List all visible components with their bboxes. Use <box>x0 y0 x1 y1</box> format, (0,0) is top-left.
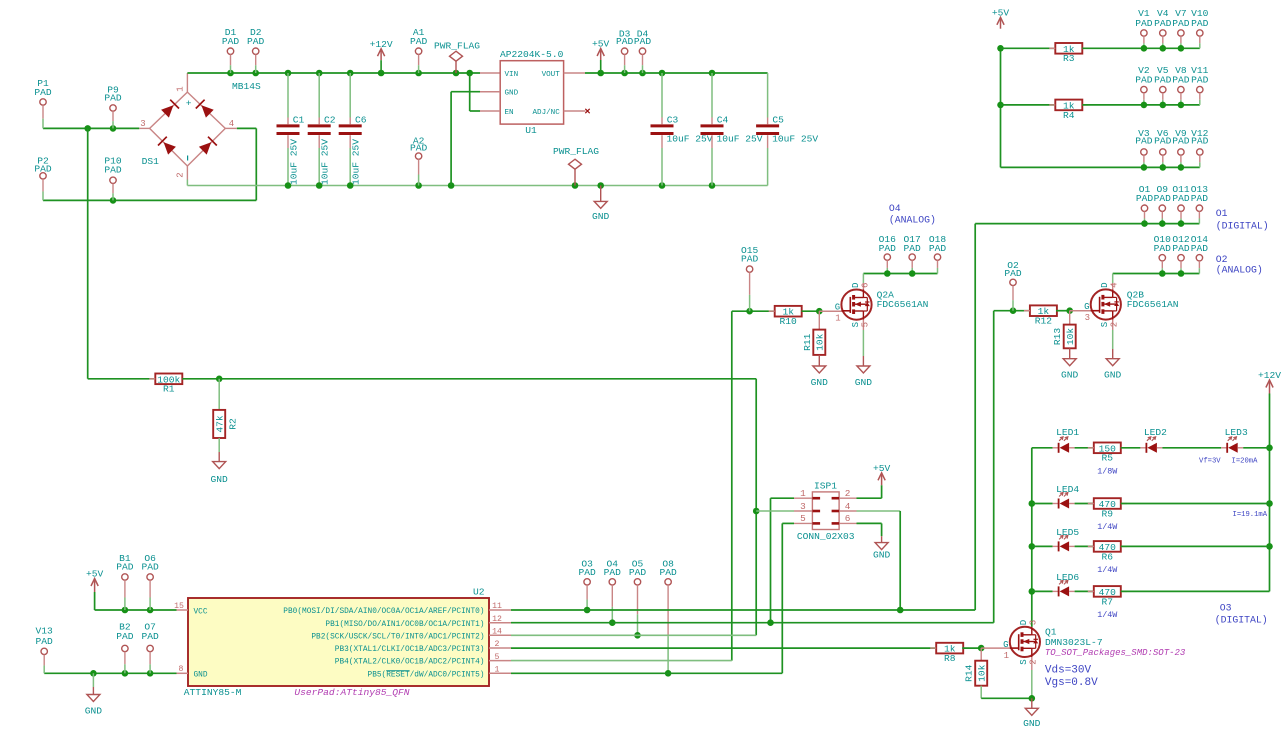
svg-text:PAD: PAD <box>141 631 159 642</box>
svg-text:+: + <box>186 98 192 109</box>
wire ISP pin1 to PB1 <box>771 498 795 623</box>
resistor R8 <box>930 643 969 664</box>
wire VIN pin stub <box>480 72 500 74</box>
wire LED row4 c <box>1121 590 1270 592</box>
wire +12V rail <box>187 72 480 74</box>
node O1 (DIGITAL) <box>1216 208 1269 231</box>
capacitor C3 <box>651 73 713 186</box>
svg-text:PAD: PAD <box>1191 18 1209 29</box>
wire gate stub Q2B <box>1070 310 1091 312</box>
svg-text:10uF 25V: 10uF 25V <box>320 139 331 185</box>
junction O4 on PB1 <box>609 619 616 626</box>
junction +5V row2 <box>997 102 1004 109</box>
svg-text:D: D <box>1019 620 1029 625</box>
junction C2 top on +12V rail <box>316 70 323 77</box>
junction PWR_FLAG on +12V rail <box>453 70 460 77</box>
value UserPad footprint <box>294 687 409 698</box>
svg-text:PAD: PAD <box>578 567 596 578</box>
wire PB5 net <box>511 672 782 674</box>
svg-text:MB14S: MB14S <box>232 81 261 92</box>
svg-text:PAD: PAD <box>1135 136 1153 147</box>
connector V4 <box>1154 8 1172 48</box>
connector A2 <box>410 135 428 185</box>
svg-text:FDC6561AN: FDC6561AN <box>877 299 929 310</box>
ground symbol main rail <box>592 186 610 223</box>
wire P1/P9 net to bridge pin3 <box>43 127 139 129</box>
wire PB3 to R8 <box>936 647 938 649</box>
resistor R2 <box>213 379 239 438</box>
svg-text:PAD: PAD <box>141 561 159 572</box>
connector O17 <box>904 234 922 274</box>
svg-text:1: 1 <box>800 488 806 499</box>
svg-text:PAD: PAD <box>410 142 428 153</box>
wire PB3 net <box>511 647 937 649</box>
connector O18 <box>929 234 947 274</box>
svg-text:2: 2 <box>176 172 186 177</box>
svg-text:R13: R13 <box>1052 328 1063 346</box>
diode LED2 <box>1140 427 1167 453</box>
wire ISP pin3 <box>756 510 794 512</box>
connector O1 <box>1136 184 1154 224</box>
resistor R7 <box>1088 586 1127 620</box>
svg-text:DMN3023L-7: DMN3023L-7 <box>1045 637 1103 648</box>
wire GND rail <box>187 185 767 187</box>
wire LED row1 e <box>1243 447 1269 449</box>
junction A1 on +12V rail <box>415 70 422 77</box>
svg-text:1: 1 <box>1004 651 1009 661</box>
junction Q1 source gnd <box>1029 695 1036 702</box>
wire LED row4 b <box>1075 590 1094 592</box>
junction P1 riser <box>84 125 91 132</box>
svg-text:6: 6 <box>845 513 851 524</box>
capacitor C5 <box>756 73 818 186</box>
connector V2 <box>1135 65 1153 105</box>
connector V1 <box>1135 8 1153 48</box>
svg-text:LED5: LED5 <box>1056 527 1079 538</box>
junction C4 top on +5V rail <box>709 70 716 77</box>
transistor Q1 DMN3023L-7 <box>1003 620 1102 698</box>
svg-text:+5V: +5V <box>86 569 104 580</box>
junction P10 <box>110 197 117 204</box>
wire Q2A gate row <box>732 310 775 312</box>
connector D3 <box>616 28 634 73</box>
ground R11 <box>811 355 829 388</box>
connector O13 <box>1191 184 1209 224</box>
connector B1 <box>116 553 134 610</box>
connector D2 <box>247 27 265 73</box>
connector O9 <box>1154 184 1172 224</box>
junction P9 <box>110 125 117 132</box>
ground Q2B source <box>1104 359 1122 381</box>
svg-text:PWR_FLAG: PWR_FLAG <box>553 146 599 157</box>
wire ISP pin4 to PB0 <box>857 511 901 610</box>
svg-text:5: 5 <box>800 513 806 524</box>
power +5V top-right <box>992 8 1010 29</box>
svg-text:PAD: PAD <box>1172 243 1190 254</box>
svg-text:O3: O3 <box>1220 602 1232 613</box>
svg-text:ATTINY85-M: ATTINY85-M <box>184 687 242 698</box>
connector V10 <box>1191 8 1209 48</box>
connector O16 <box>879 234 897 274</box>
svg-text:PAD: PAD <box>1004 268 1022 279</box>
svg-text:PAD: PAD <box>104 92 122 103</box>
svg-text:1: 1 <box>835 314 840 324</box>
svg-text:PB5(RESET/dW/ADC0/PCINT5): PB5(RESET/dW/ADC0/PCINT5) <box>368 671 485 679</box>
junction V5 <box>1160 102 1167 109</box>
power +5V at U2 <box>86 569 104 611</box>
svg-text:PAD: PAD <box>629 567 647 578</box>
svg-text:PB1(MISO/DO/AIN1/OC0B/OC1A/PCI: PB1(MISO/DO/AIN1/OC0B/OC1A/PCINT1) <box>325 621 484 629</box>
svg-text:6: 6 <box>860 283 870 288</box>
wire PB1 net <box>511 622 994 624</box>
svg-text:PAD: PAD <box>1135 75 1153 86</box>
svg-text:R9: R9 <box>1102 508 1114 519</box>
ground Q1 <box>1023 698 1041 729</box>
diode LED1 <box>1053 427 1080 453</box>
svg-text:C6: C6 <box>355 115 367 126</box>
connector P9 <box>104 84 122 128</box>
wire R1 row left <box>88 378 156 380</box>
wire O1 digital row <box>975 223 1199 225</box>
connector P10 <box>104 156 122 201</box>
note Vds <box>1045 664 1092 676</box>
svg-text:4: 4 <box>845 501 851 512</box>
junction LED row2 right <box>1266 500 1273 507</box>
svg-text:PAD: PAD <box>904 243 922 254</box>
connector V8 <box>1172 65 1190 105</box>
resistor R6 <box>1088 541 1127 575</box>
svg-text:G: G <box>835 303 840 313</box>
op-amp regulator U1 AP2204K-5.0 <box>480 49 590 136</box>
connector V13 <box>36 626 54 674</box>
svg-text:+5V: +5V <box>873 463 891 474</box>
junction +5V row1 <box>997 45 1004 52</box>
junction C4 bot on GND rail <box>709 182 716 189</box>
resistor R3 <box>1049 43 1088 64</box>
wire LED row3 c <box>1121 545 1270 547</box>
junction C6 top on +12V rail <box>347 70 354 77</box>
power +5V at ISP <box>873 463 891 485</box>
svg-text:+5V: +5V <box>592 38 610 49</box>
junction V9 <box>1178 164 1185 171</box>
wire LED left rail / Q1 drain <box>1031 448 1033 627</box>
svg-text:R11: R11 <box>802 333 813 351</box>
svg-text:PAD: PAD <box>1154 136 1172 147</box>
svg-text:(DIGITAL): (DIGITAL) <box>1215 614 1268 625</box>
svg-text:1/4W: 1/4W <box>1097 610 1118 620</box>
resistor R13 <box>1052 311 1076 349</box>
svg-text:S: S <box>851 322 861 327</box>
wire VCC row <box>95 609 177 611</box>
connector ISP1 CONN_02X03 <box>794 481 857 542</box>
wire +12V LED rail <box>1269 394 1271 592</box>
svg-text:R5: R5 <box>1102 453 1114 464</box>
wire LED row3 b <box>1075 545 1094 547</box>
wire Q1 gate stub <box>981 647 1010 649</box>
svg-text:10k: 10k <box>1065 328 1076 346</box>
svg-text:(DIGITAL): (DIGITAL) <box>1216 220 1269 231</box>
svg-text:FDC6561AN: FDC6561AN <box>1127 299 1179 310</box>
svg-text:4: 4 <box>1110 282 1120 287</box>
transistor Q2A FDC6561AN <box>835 274 929 367</box>
capacitor C6 <box>339 73 367 186</box>
wire riser R1 net to ISP pin3/PB2 <box>755 379 757 636</box>
junction C1 bot on GND rail <box>285 182 292 189</box>
svg-text:GND: GND <box>811 377 829 388</box>
junction PWR_FLAG2 on GND rail <box>572 182 579 189</box>
wire V row2 right <box>1082 104 1200 106</box>
junction O17 <box>909 270 916 277</box>
svg-text:PAD: PAD <box>116 561 134 572</box>
connector O11 <box>1172 184 1190 224</box>
svg-text:GND: GND <box>85 706 103 717</box>
junction V4 <box>1160 45 1167 52</box>
svg-text:2: 2 <box>1029 659 1039 664</box>
junction O15 <box>746 308 753 315</box>
connector O2 <box>1004 260 1022 311</box>
junction O1 <box>1141 220 1148 227</box>
junction V7 <box>1178 45 1185 52</box>
svg-text:10uF 25V: 10uF 25V <box>772 133 818 144</box>
wire riser Q2A gate to PB4 <box>731 311 733 660</box>
junction B2 <box>122 670 129 677</box>
connector D1 <box>222 27 240 73</box>
resistor R11 <box>802 311 826 355</box>
wire gate stub Q2A <box>819 310 841 312</box>
power +12V at LEDs <box>1258 370 1281 393</box>
svg-text:10uF 25V: 10uF 25V <box>717 133 763 144</box>
svg-text:LED2: LED2 <box>1144 427 1167 438</box>
ground R2 <box>211 438 229 485</box>
connector O5 <box>629 559 647 636</box>
svg-text:12: 12 <box>492 615 502 624</box>
svg-text:PAD: PAD <box>1136 193 1154 204</box>
junction Q2A gate <box>816 308 823 315</box>
svg-text:3: 3 <box>1029 620 1039 625</box>
svg-text:VCC: VCC <box>194 608 208 616</box>
svg-text:C1: C1 <box>293 115 305 126</box>
svg-text:C4: C4 <box>717 115 729 126</box>
junction O5 on PB2 <box>634 632 641 639</box>
svg-text:S: S <box>1100 322 1110 327</box>
wire R8 to junction <box>962 647 981 649</box>
junction V8 <box>1178 102 1185 109</box>
svg-text:R6: R6 <box>1102 551 1114 562</box>
junction LED row3 left <box>1029 543 1036 550</box>
svg-text:GND: GND <box>873 550 891 561</box>
connector O8 <box>659 559 677 674</box>
svg-text:3: 3 <box>1085 313 1090 323</box>
svg-text:PWR_FLAG: PWR_FLAG <box>434 41 480 52</box>
junction O12 <box>1178 270 1185 277</box>
svg-text:C3: C3 <box>667 115 679 126</box>
connector V12 <box>1191 128 1209 167</box>
junction A2 on GND rail <box>415 182 422 189</box>
svg-text:+12V: +12V <box>1258 370 1281 381</box>
junction +12V on +12V rail <box>378 70 385 77</box>
diode LED4 <box>1053 484 1080 509</box>
svg-text:S: S <box>1019 659 1029 664</box>
junction GND sym on GND rail <box>597 182 604 189</box>
svg-text:R7: R7 <box>1102 596 1114 607</box>
op-amp U2 ATTINY85-M <box>174 587 511 698</box>
connector O15 <box>741 245 759 311</box>
connector O10 <box>1154 234 1172 274</box>
svg-text:ADJ/NC: ADJ/NC <box>532 109 560 117</box>
svg-text:GND: GND <box>505 90 519 98</box>
svg-text:3: 3 <box>140 119 145 129</box>
capacitor C1 <box>277 73 305 186</box>
junction ISP pin3 on R1 riser <box>753 508 760 515</box>
transistor Q2B FDC6561AN <box>1084 274 1178 359</box>
junction C6 bot on GND rail <box>347 182 354 189</box>
wire riser Q2B gate to PB1 <box>993 311 995 623</box>
svg-text:V13: V13 <box>36 626 54 637</box>
wire bridge pin2 to gnd rail <box>186 180 188 186</box>
wire V row3 <box>1001 166 1200 168</box>
svg-text:PAD: PAD <box>1172 18 1190 29</box>
connector V7 <box>1172 8 1190 48</box>
svg-text:PAD: PAD <box>879 243 897 254</box>
svg-text:PAD: PAD <box>1154 75 1172 86</box>
svg-text:GND: GND <box>1023 718 1041 729</box>
svg-text:LED4: LED4 <box>1056 484 1079 495</box>
svg-text:PB0(MOSI/DI/SDA/AIN0/OC0A/OC1A: PB0(MOSI/DI/SDA/AIN0/OC0A/OC1A/AREF/PCIN… <box>283 608 484 616</box>
junction R2 top <box>216 376 223 383</box>
wire +5V rail from VOUT <box>585 72 768 74</box>
wire U1 EN pin to +12V rail <box>470 73 480 111</box>
svg-text:PAD: PAD <box>1135 18 1153 29</box>
resistor R14 <box>964 648 988 686</box>
svg-text:PAD: PAD <box>1191 243 1209 254</box>
power flag PWR_FLAG bottom <box>553 146 599 186</box>
svg-text:Vf=3V: Vf=3V <box>1199 458 1221 466</box>
svg-text:DS1: DS1 <box>142 156 160 167</box>
connector B2 <box>116 622 134 674</box>
svg-text:PAD: PAD <box>34 87 52 98</box>
wire LED row3 a <box>1032 545 1053 547</box>
junction D4 on +5V rail <box>639 70 646 77</box>
wire P2/P10 net <box>43 199 256 201</box>
ground ISP <box>873 536 891 560</box>
svg-text:O2: O2 <box>1216 254 1228 265</box>
node O3 (DIGITAL) <box>1215 602 1268 625</box>
svg-text:PAD: PAD <box>1191 193 1209 204</box>
resistor R12 <box>1024 305 1063 326</box>
bridge rectifier DS1 MB14S <box>139 73 261 180</box>
connector V6 <box>1154 128 1172 167</box>
junction O2 pad <box>1010 307 1017 314</box>
wire ISP pin2 to +5V <box>857 485 882 498</box>
connector V3 <box>1135 128 1153 167</box>
junction EN riser on +12V rail <box>466 70 473 77</box>
svg-text:G: G <box>1084 302 1089 312</box>
junction LED row2 left <box>1029 500 1036 507</box>
svg-text:LED6: LED6 <box>1056 572 1079 583</box>
junction O10 <box>1159 270 1166 277</box>
svg-text:R4: R4 <box>1063 110 1075 121</box>
svg-text:5: 5 <box>495 653 500 662</box>
junction O16 <box>884 270 891 277</box>
wire V row2 left <box>1001 104 1056 106</box>
resistor R1 <box>149 374 188 395</box>
wire O16 row <box>863 273 937 275</box>
svg-text:11: 11 <box>492 602 502 611</box>
value Q1 footprint <box>1045 648 1186 658</box>
svg-text:C5: C5 <box>772 115 784 126</box>
svg-text:TO_SOT_Packages_SMD:SOT-23: TO_SOT_Packages_SMD:SOT-23 <box>1045 648 1186 658</box>
note I=19.1mA <box>1233 511 1268 519</box>
power +12V <box>370 39 393 73</box>
svg-text:1/8W: 1/8W <box>1097 467 1118 477</box>
svg-text:PAD: PAD <box>634 36 652 47</box>
power +5V at VOUT <box>592 38 610 73</box>
svg-text:GND: GND <box>211 474 229 485</box>
connector O6 <box>141 553 159 610</box>
svg-text:GND: GND <box>1104 369 1122 380</box>
svg-text:PB4(XTAL2/CLK0/OC1B/ADC2/PCINT: PB4(XTAL2/CLK0/OC1B/ADC2/PCINT4) <box>335 659 485 667</box>
junction LED row4 left <box>1029 588 1036 595</box>
junction ISP1 on PB1 <box>767 619 774 626</box>
svg-text:1: 1 <box>176 86 186 91</box>
svg-text:PB3(XTAL1/CLKI/OC1B/ADC3/PCINT: PB3(XTAL1/CLKI/OC1B/ADC3/PCINT3) <box>335 646 485 654</box>
resistor R9 <box>1088 498 1127 532</box>
svg-text:PAD: PAD <box>1172 75 1190 86</box>
wire bridge pin4 to riser <box>237 127 256 129</box>
diode LED5 <box>1053 527 1080 552</box>
svg-text:PB2(SCK/USCK/SCL/T0/INT0/ADC1/: PB2(SCK/USCK/SCL/T0/INT0/ADC1/PCINT2) <box>311 633 484 641</box>
junction LED row1 right <box>1266 445 1273 452</box>
ground R13 <box>1061 348 1079 380</box>
svg-text:VOUT: VOUT <box>542 71 561 79</box>
resistor R5 <box>1088 443 1127 477</box>
wire riser P2 net up to bridge pin4 <box>255 128 257 200</box>
wire GND row U2 <box>44 672 176 674</box>
connector V9 <box>1172 128 1190 167</box>
connector O7 <box>141 622 159 674</box>
svg-text:PAD: PAD <box>929 243 947 254</box>
power flag PWR_FLAG top <box>434 41 480 74</box>
svg-text:2: 2 <box>1110 322 1120 327</box>
svg-text:ISP1: ISP1 <box>814 481 837 492</box>
svg-text:10uF 25V: 10uF 25V <box>351 139 362 185</box>
svg-text:U2: U2 <box>473 587 485 598</box>
svg-text:PAD: PAD <box>1154 193 1172 204</box>
junction U1 gnd on GND rail <box>448 182 455 189</box>
junction C3 bot on GND rail <box>659 182 666 189</box>
wire +5V riser top-right <box>1000 48 1002 167</box>
ground Q2A source <box>855 366 873 388</box>
junction D2 on +12V rail <box>252 70 259 77</box>
svg-text:GND: GND <box>855 377 873 388</box>
connector P1 <box>34 78 52 128</box>
svg-text:(ANALOG): (ANALOG) <box>1216 265 1263 276</box>
svg-text:AP2204K-5.0: AP2204K-5.0 <box>500 49 564 60</box>
junction O9 <box>1159 220 1166 227</box>
connector O3 <box>578 559 596 610</box>
junction C1 top on +12V rail <box>285 70 292 77</box>
svg-text:PAD: PAD <box>616 36 634 47</box>
capacitor C4 <box>701 73 763 186</box>
svg-text:PAD: PAD <box>247 36 265 47</box>
wire LED row1 c <box>1121 447 1141 449</box>
wire O1 riser down to PB0 <box>974 224 976 610</box>
svg-text:C2: C2 <box>324 115 336 126</box>
resistor R10 <box>769 306 808 327</box>
connector O12 <box>1172 234 1190 274</box>
connector O14 <box>1191 234 1209 274</box>
diode LED3 <box>1199 427 1258 466</box>
